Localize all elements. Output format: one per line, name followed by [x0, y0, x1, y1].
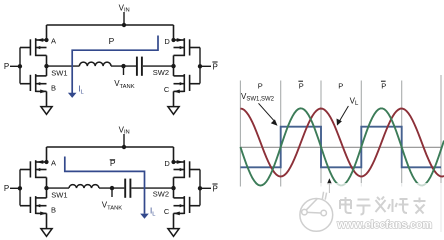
svg-text:P: P: [381, 81, 386, 90]
arrow V_SW1,SW2 pointer: [259, 103, 276, 122]
arrow I_L: [68, 93, 77, 98]
gridline 1: [239, 81, 241, 187]
capacitor C_TANK (bottom circuit): [124, 179, 126, 198]
svg-text:A: A: [51, 158, 56, 167]
svg-text:B: B: [51, 206, 56, 215]
gridline 5: [401, 81, 403, 187]
wire V_TANK stub (bottom circuit): [111, 188, 113, 197]
node V_IN junction dot: [122, 23, 126, 27]
node SW1: [44, 64, 48, 68]
svg-text:IL: IL: [150, 207, 156, 218]
ground below B: [41, 107, 52, 115]
capacitor C_TANK: [136, 57, 138, 76]
gridline 3: [320, 81, 322, 187]
node P gate junction: [18, 64, 22, 68]
svg-text:SW1: SW1: [51, 191, 67, 200]
waveform V_L sine (red): [240, 109, 444, 177]
node P-bar gate junction (bottom circuit): [198, 186, 202, 190]
wire V_TANK stub: [123, 66, 125, 75]
wire capacitor to SW2: [143, 65, 174, 67]
svg-text:P: P: [4, 184, 9, 193]
arrow V_L pointer: [340, 106, 349, 121]
svg-text:P: P: [213, 62, 218, 71]
wire inductor to capacitor (bottom circuit): [99, 187, 124, 189]
svg-text:IL: IL: [78, 85, 84, 96]
wire SW1 to inductor (bottom circuit): [47, 187, 70, 189]
svg-text:SW2: SW2: [153, 68, 169, 77]
transistor A (PMOS, high-side left, bottom circuit): [20, 147, 49, 188]
wire top rail V_IN: [47, 24, 174, 26]
svg-text:VL: VL: [350, 97, 359, 108]
wire capacitor to SW2 (bottom circuit): [131, 187, 173, 189]
wire P lead: [10, 65, 20, 67]
node SW2: [171, 64, 175, 68]
inductor L1: [79, 62, 111, 66]
svg-text:C: C: [164, 207, 170, 216]
wire P-bar lead: [200, 65, 211, 67]
svg-text:P: P: [109, 36, 115, 46]
wire current path P-bar (blue, bottom circuit): [65, 157, 145, 214]
node SW1 (bottom circuit): [44, 186, 48, 190]
svg-text:P: P: [258, 81, 263, 90]
ground below B (bottom circuit): [41, 229, 52, 237]
axis zero line: [240, 146, 441, 148]
transistor D (PMOS, high-side right, mirrored): [171, 25, 200, 66]
svg-text:P: P: [299, 81, 304, 90]
wire gate bus left (P): [19, 48, 21, 84]
svg-text:VTANK: VTANK: [114, 79, 135, 90]
svg-text:P: P: [338, 81, 343, 90]
wire current path P (blue): [72, 36, 158, 94]
wire SW1 to inductor: [47, 65, 80, 67]
svg-text:VSW1,SW2: VSW1,SW2: [241, 92, 275, 103]
node V_IN junction dot (bottom circuit): [122, 145, 126, 149]
svg-text:SW1: SW1: [51, 69, 67, 78]
svg-text:C: C: [164, 85, 170, 94]
wire P-bar lead (bottom circuit): [200, 187, 211, 189]
ground below C: [168, 107, 179, 115]
wire gate bus right P-bar (bottom circuit): [199, 170, 201, 206]
wire inductor to capacitor: [111, 65, 136, 67]
svg-text:P: P: [4, 62, 9, 71]
wire gate bus right (P-bar): [199, 48, 201, 84]
wire gate bus left P (bottom circuit): [19, 170, 21, 206]
wire V_IN stem: [123, 12, 125, 25]
svg-text:VIN: VIN: [119, 3, 130, 13]
svg-text:www.elecfans.com: www.elecfans.com: [336, 219, 432, 231]
waveform V_SW1,SW2 square (blue): [240, 127, 441, 168]
transistor D (PMOS, high-side right, bottom circuit): [171, 147, 200, 188]
node P gate junction (bottom circuit): [18, 186, 22, 190]
svg-text:D: D: [164, 37, 170, 46]
transistor A (PMOS, high-side left): [20, 25, 49, 66]
node V_TANK: [121, 64, 125, 68]
node P-bar gate junction: [198, 64, 202, 68]
wire top rail V_IN (bottom circuit): [47, 146, 174, 148]
svg-text:VIN: VIN: [119, 125, 130, 135]
transistor C (NMOS, low-side right, mirrored): [173, 66, 200, 106]
svg-text:SW2: SW2: [153, 190, 169, 199]
wire P lead (bottom circuit): [10, 187, 20, 189]
transistor B (NMOS, low-side left, bottom circuit): [20, 188, 47, 228]
transistor C (NMOS, low-side right, bottom circuit): [173, 188, 200, 228]
node SW2 (bottom circuit): [171, 186, 175, 190]
right border: [440, 75, 442, 232]
transistor B (NMOS, low-side left): [20, 66, 47, 106]
gridline 4: [360, 81, 362, 187]
svg-text:A: A: [51, 36, 56, 45]
svg-text:B: B: [51, 84, 56, 93]
node V_TANK (bottom circuit): [110, 186, 114, 190]
svg-text:VTANK: VTANK: [102, 201, 123, 212]
svg-text:D: D: [164, 159, 170, 168]
gridline 2: [280, 81, 282, 187]
wire V_IN stem (bottom circuit): [123, 134, 125, 147]
arrow inductor-current pointer: [328, 183, 330, 194]
arrow I_L (bottom circuit): [140, 214, 149, 219]
svg-text:P: P: [213, 184, 218, 193]
ground below C (bottom circuit): [168, 229, 179, 237]
waveform I_L sine (green): [240, 108, 444, 185]
inductor L1 (bottom circuit): [69, 185, 99, 188]
